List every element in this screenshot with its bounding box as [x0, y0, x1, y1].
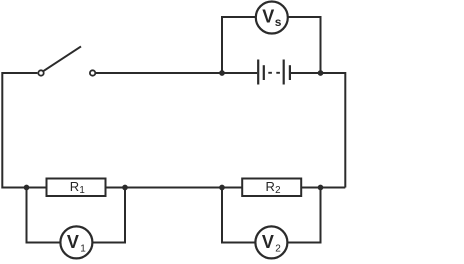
wire voltmeter V2 branch — [222, 188, 321, 243]
node junction bottom left of R1 — [24, 185, 30, 191]
svg-text:1: 1 — [79, 185, 84, 196]
wire top middle (switch to battery) — [96, 72, 257, 74]
resistor R1 — [47, 179, 106, 197]
svg-text:V: V — [262, 232, 274, 252]
battery (two cells with dashed continuation) — [258, 60, 290, 85]
svg-text:R: R — [266, 179, 275, 194]
resistor R2 — [242, 179, 301, 197]
svg-text:2: 2 — [275, 185, 280, 196]
voltmeter V1 — [60, 226, 92, 258]
svg-text:2: 2 — [275, 244, 281, 255]
svg-text:s: s — [275, 15, 282, 29]
svg-text:R: R — [70, 179, 79, 194]
svg-text:V: V — [67, 232, 79, 252]
wire left side (top-left corner down to bottom-left corner) — [2, 73, 37, 188]
node junction top left of battery — [219, 70, 225, 76]
node junction top right of battery — [318, 70, 324, 76]
voltmeter Vs — [256, 2, 288, 34]
svg-text:V: V — [262, 7, 274, 27]
voltmeter V2 — [255, 226, 287, 258]
wire bottom main — [2, 187, 345, 189]
node junction bottom right of R1 — [122, 185, 128, 191]
wire voltmeter Vs branch left — [222, 17, 257, 73]
wire voltmeter Vs branch right — [287, 17, 320, 73]
wire battery right to top-right corner and down — [291, 73, 346, 188]
wire voltmeter V1 branch — [27, 188, 126, 243]
svg-text:1: 1 — [80, 244, 86, 255]
node junction bottom right of R2 — [318, 185, 324, 191]
node junction bottom left of R2 — [219, 185, 225, 191]
switch (open, lever and two terminal circles) — [38, 46, 95, 75]
